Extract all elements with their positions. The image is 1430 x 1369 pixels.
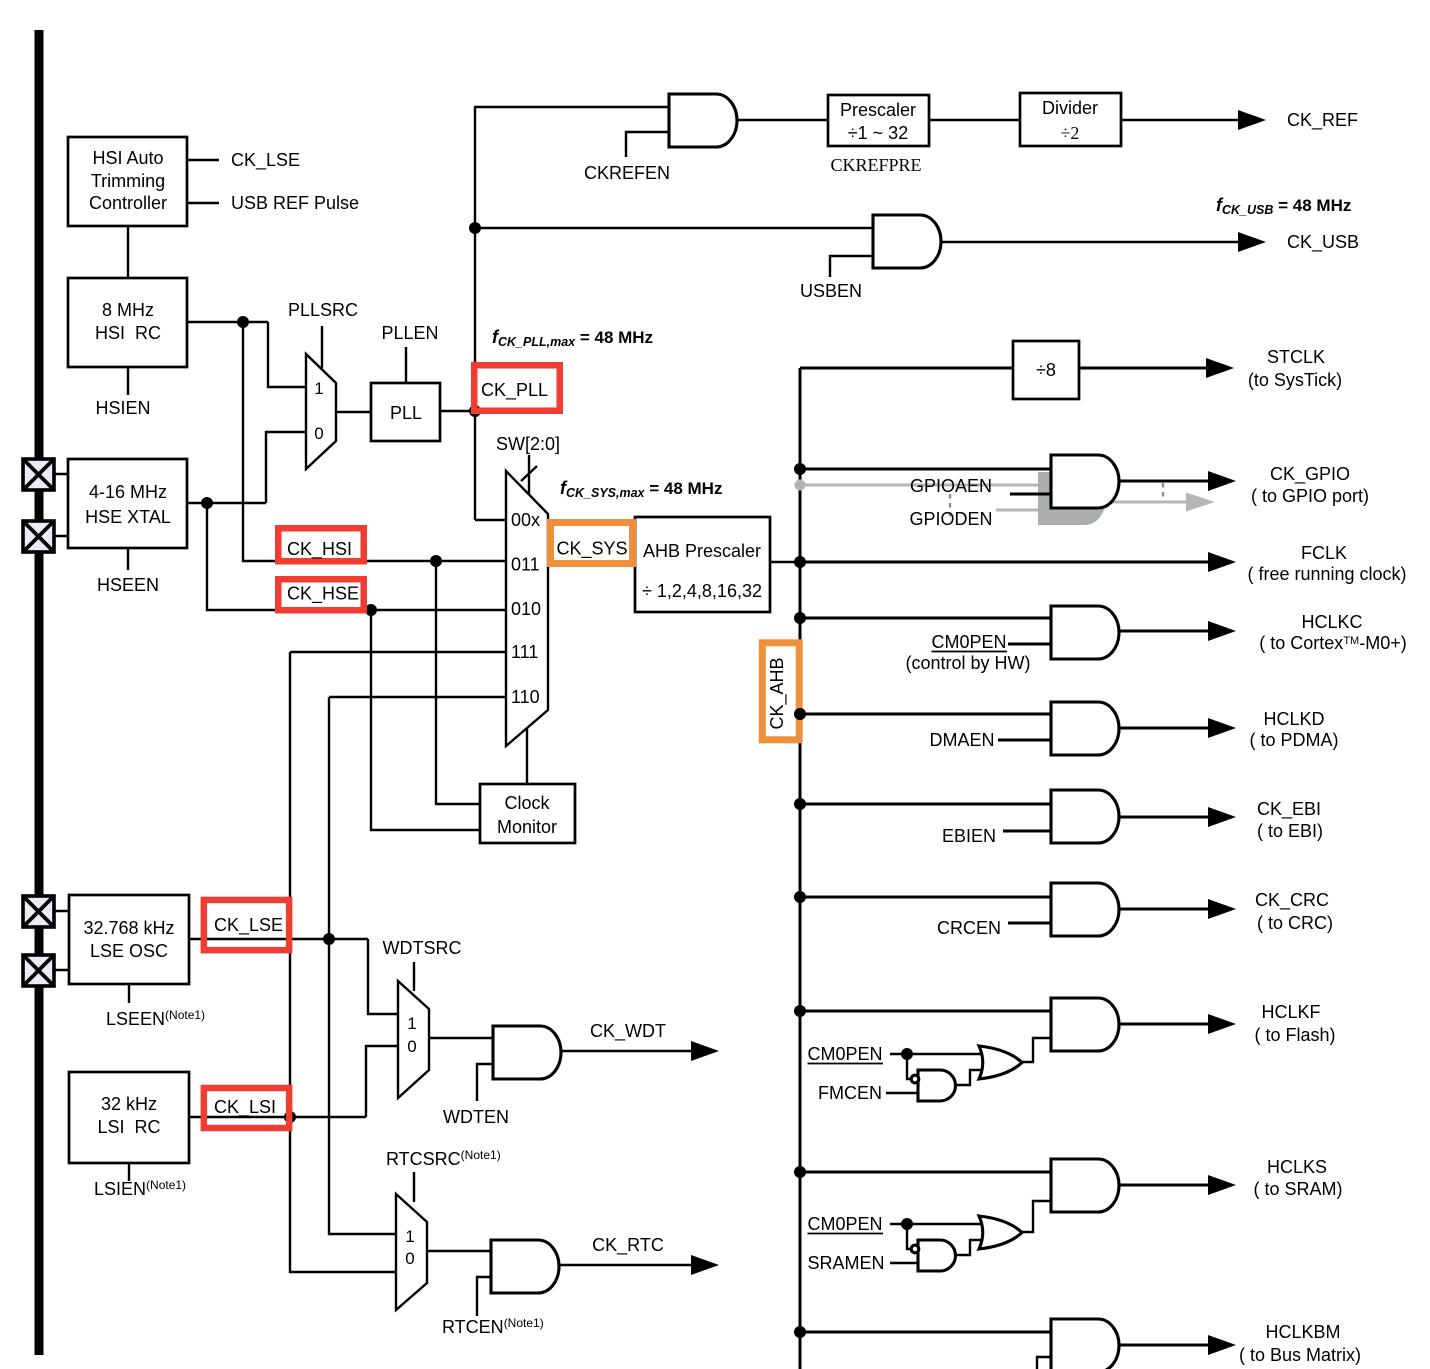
svg-text:CK_LSE: CK_LSE [214,915,283,936]
svg-text:RTCSRC(Note1): RTCSRC(Note1) [386,1148,501,1169]
svg-text:HCLKF: HCLKF [1261,1002,1320,1022]
svg-text:CK_REF: CK_REF [1287,110,1358,131]
svg-text:CK_CRC: CK_CRC [1255,890,1329,911]
svg-text:CKREFPRE: CKREFPRE [830,155,921,175]
svg-text:CK_GPIO: CK_GPIO [1270,464,1350,485]
svg-text:fCK_SYS,max = 48 MHz: fCK_SYS,max = 48 MHz [560,478,722,500]
svg-text:÷ 1,2,4,8,16,32: ÷ 1,2,4,8,16,32 [642,581,762,601]
svg-text:( to EBI): ( to EBI) [1257,821,1323,841]
svg-text:fCK_USB = 48 MHz: fCK_USB = 48 MHz [1216,195,1351,217]
svg-text:CK_SYS: CK_SYS [557,539,628,560]
svg-text:÷2: ÷2 [1061,123,1080,143]
svg-text:÷8: ÷8 [1036,360,1056,380]
svg-text:CKREFEN: CKREFEN [584,163,670,183]
svg-text:1: 1 [407,1014,416,1033]
svg-text:CK_RTC: CK_RTC [592,1235,664,1256]
svg-text:WDTSRC: WDTSRC [383,938,462,958]
svg-text:110: 110 [511,687,540,707]
svg-text:LSI RC: LSI RC [97,1117,160,1137]
svg-text:EBIEN: EBIEN [942,826,996,846]
svg-text:( to GPIO port): ( to GPIO port) [1251,486,1369,506]
svg-text:Controller: Controller [89,193,167,213]
svg-text:STCLK: STCLK [1267,347,1325,367]
svg-text:0: 0 [405,1249,414,1268]
svg-text:SW[2:0]: SW[2:0] [496,434,560,454]
svg-text:HSI RC: HSI RC [95,323,161,343]
svg-text:( to CRC): ( to CRC) [1257,913,1333,933]
svg-text:GPIOAEN: GPIOAEN [910,476,992,496]
svg-text:0: 0 [407,1037,416,1056]
svg-text:CM0PEN: CM0PEN [807,1214,882,1234]
svg-text:00x: 00x [511,510,540,530]
svg-text:CK_AHB: CK_AHB [767,657,788,729]
svg-text:( to Flash): ( to Flash) [1254,1025,1335,1045]
svg-text:(control by HW): (control by HW) [905,653,1030,673]
svg-text:CK_LSE: CK_LSE [231,150,300,171]
svg-text:÷1 ~ 32: ÷1 ~ 32 [848,123,908,143]
svg-text:CRCEN: CRCEN [937,918,1001,938]
svg-text:Clock: Clock [504,793,550,813]
svg-text:111: 111 [511,642,538,662]
svg-text:SRAMEN: SRAMEN [807,1253,884,1273]
svg-text:PLLSRC: PLLSRC [288,300,358,320]
svg-text:CK_LSI: CK_LSI [214,1097,276,1118]
svg-text:Prescaler: Prescaler [840,100,916,120]
svg-text:32.768 kHz: 32.768 kHz [83,918,174,938]
svg-text:CK_USB: CK_USB [1287,232,1359,253]
svg-text:HCLKBM: HCLKBM [1265,1322,1340,1342]
svg-text:4-16 MHz: 4-16 MHz [89,482,167,502]
svg-text:CM0PEN: CM0PEN [807,1044,882,1064]
svg-text:USB REF Pulse: USB REF Pulse [231,193,359,213]
svg-text:AHB Prescaler: AHB Prescaler [643,541,761,561]
svg-text:Trimming: Trimming [91,171,165,191]
svg-text:USBEN: USBEN [800,281,862,301]
svg-text:(to SysTick): (to SysTick) [1248,370,1342,390]
svg-text:( free running clock): ( free running clock) [1247,564,1406,584]
svg-text:CK_PLL: CK_PLL [481,380,548,401]
svg-text:Monitor: Monitor [497,817,557,837]
svg-text:Divider: Divider [1042,98,1098,118]
svg-text:011: 011 [511,555,540,575]
svg-text:( to SRAM): ( to SRAM) [1253,1179,1342,1199]
svg-text:HSE XTAL: HSE XTAL [85,507,171,527]
svg-text:RTCEN(Note1): RTCEN(Note1) [442,1316,544,1337]
svg-text:WDTEN: WDTEN [443,1107,509,1127]
svg-text:LSIEN(Note1): LSIEN(Note1) [94,1178,186,1199]
svg-text:010: 010 [511,599,541,619]
svg-text:GPIODEN: GPIODEN [909,509,992,529]
svg-text:( to CortexTM-M0+): ( to CortexTM-M0+) [1259,633,1406,653]
svg-text:HCLKS: HCLKS [1267,1157,1327,1177]
svg-text:HSEEN: HSEEN [97,575,159,595]
svg-text:1: 1 [314,379,323,398]
svg-text:DMAEN: DMAEN [929,730,994,750]
svg-text:fCK_PLL,max = 48 MHz: fCK_PLL,max = 48 MHz [492,327,653,349]
svg-text:HCLKC: HCLKC [1301,612,1362,632]
svg-text:CK_EBI: CK_EBI [1257,799,1321,820]
svg-text:8 MHz: 8 MHz [102,300,154,320]
svg-text:32 kHz: 32 kHz [101,1094,157,1114]
svg-text:FMCEN: FMCEN [818,1083,882,1103]
svg-text:( to Bus Matrix): ( to Bus Matrix) [1239,1345,1361,1365]
svg-text:HCLKD: HCLKD [1263,709,1324,729]
svg-text:1: 1 [405,1227,414,1246]
svg-text:PLLEN: PLLEN [381,323,438,343]
svg-text:FCLK: FCLK [1301,543,1347,563]
svg-text:LSE OSC: LSE OSC [90,941,168,961]
svg-text:( to PDMA): ( to PDMA) [1249,730,1338,750]
svg-text:CK_HSE: CK_HSE [287,584,359,605]
svg-text:HSIEN: HSIEN [95,398,150,418]
svg-text:LSEEN(Note1): LSEEN(Note1) [106,1008,205,1029]
svg-text:CM0PEN: CM0PEN [931,632,1006,652]
svg-text:CK_WDT: CK_WDT [590,1021,666,1042]
svg-text:HSI Auto: HSI Auto [92,148,163,168]
svg-text:CK_HSI: CK_HSI [287,539,352,560]
svg-text:0: 0 [314,424,323,443]
svg-text:PLL: PLL [390,403,422,423]
